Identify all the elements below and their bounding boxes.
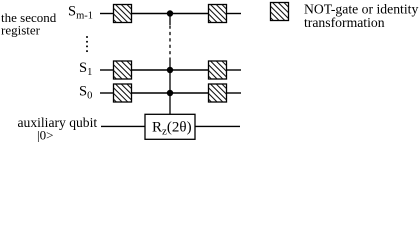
gate Rz(2theta) box	[145, 114, 195, 139]
wire S_1 right segment	[227, 69, 241, 71]
NOT/identity gate box row1 right	[191, 2, 250, 27]
svg-text:S0: S0	[79, 84, 92, 102]
NOT/identity gate box row2 right	[191, 59, 250, 84]
svg-text:Sm-1: Sm-1	[68, 4, 93, 22]
NOT/identity gate box row3 right	[191, 82, 250, 107]
svg-text:Rz(2θ): Rz(2θ)	[152, 120, 192, 138]
control line dashed part	[169, 26, 171, 59]
control line solid upper part	[169, 14, 171, 26]
wire S_m-1 right segment	[227, 13, 241, 15]
control line solid lower part	[169, 58, 171, 114]
wire S_1 left segment	[100, 69, 113, 71]
NOT/identity gate box row2 left	[96, 59, 155, 84]
svg-text:S1: S1	[79, 60, 92, 78]
vertical ellipsis dots	[86, 36, 88, 52]
wire S_1 middle segment	[132, 69, 208, 71]
wire S_0 middle segment	[132, 92, 208, 94]
wire auxiliary left segment	[101, 125, 145, 127]
svg-text:|0>: |0>	[37, 128, 53, 143]
wire S_m-1 middle segment	[132, 13, 208, 15]
wire S_0 left segment	[100, 92, 113, 94]
NOT/identity gate box row3 left	[96, 82, 155, 107]
svg-text:transformation: transformation	[304, 15, 385, 30]
wire auxiliary right segment	[195, 125, 240, 127]
control dot row3	[167, 90, 173, 96]
svg-text:register: register	[1, 23, 41, 38]
svg-text:auxiliary qubit: auxiliary qubit	[18, 115, 98, 130]
NOT/identity gate box row1 left	[96, 2, 155, 27]
control dot row2	[167, 67, 173, 73]
wire S_m-1 left segment	[100, 13, 113, 15]
wire S_0 right segment	[227, 92, 241, 94]
legend hatched box	[253, 0, 312, 25]
control dot row1	[167, 10, 173, 16]
